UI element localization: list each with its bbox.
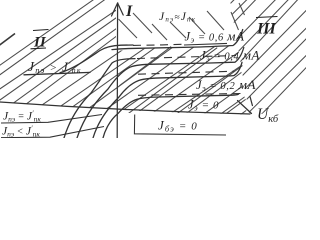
- svg-text:Jбэ = 0: Jбэ = 0: [158, 118, 198, 134]
- svg-text:I: I: [125, 3, 133, 20]
- svg-text:III: III: [256, 21, 276, 38]
- svg-text:Jэ = 0: Jэ = 0: [188, 98, 219, 113]
